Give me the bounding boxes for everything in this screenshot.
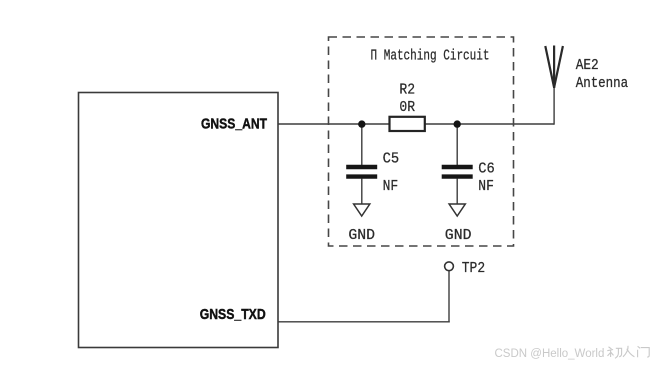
svg-text:R2: R2 (399, 83, 415, 99)
junction node A (358, 120, 365, 127)
wire C6 top lead (456, 124, 458, 165)
capacitor C5 (346, 167, 377, 177)
pin label GNSS_TXD (200, 306, 266, 323)
wire C5 bottom lead (361, 179, 363, 204)
net label GND (C6) (445, 228, 472, 244)
wire TP2 vertical (448, 271, 450, 323)
capacitor C6 (442, 167, 473, 177)
module U1 GNSS module box (79, 93, 279, 348)
label R2 (399, 83, 415, 99)
svg-text:GNSS_ANT: GNSS_ANT (201, 116, 267, 133)
svg-text:C5: C5 (383, 152, 400, 168)
wire GNSS_TXD net (278, 321, 450, 323)
ground (C6) (449, 204, 465, 216)
wire GNSS_ANT net (resistor to antenna corner) (425, 123, 554, 125)
label Pi Matching Circuit (371, 49, 490, 65)
pin label GNSS_ANT (201, 116, 267, 133)
watermark CJK glyphs (607, 346, 649, 359)
value label 0R (399, 100, 415, 116)
junction node B (454, 120, 461, 127)
value label NF (C5) (383, 179, 399, 195)
svg-text:GNSS_TXD: GNSS_TXD (200, 306, 266, 323)
value label NF (C6) (478, 179, 494, 195)
resistor R2 (390, 117, 425, 131)
test point TP2 (445, 262, 454, 271)
svg-text:Antenna: Antenna (576, 76, 629, 92)
ground (C5) (354, 204, 370, 216)
antenna AE2 (545, 46, 563, 89)
svg-text:AE2: AE2 (576, 58, 599, 74)
label Antenna (576, 76, 629, 92)
wire C6 bottom lead (456, 179, 458, 204)
svg-text:GND: GND (445, 228, 472, 244)
label C5 (383, 152, 400, 168)
svg-text:C6: C6 (478, 161, 495, 177)
label C6 (478, 161, 495, 177)
svg-text:NF: NF (478, 179, 494, 195)
matching circuit dashed boundary (329, 37, 514, 246)
svg-text:0R: 0R (399, 100, 415, 116)
watermark CSDN (495, 348, 605, 360)
svg-text:Π Matching Circuit: Π Matching Circuit (371, 49, 490, 65)
svg-text:GND: GND (348, 228, 375, 244)
wire C5 top lead (361, 124, 363, 165)
net label GND (C5) (348, 228, 375, 244)
label TP2 (462, 261, 485, 277)
wire GNSS_ANT net (module to resistor) (278, 123, 390, 125)
svg-text:CSDN @Hello_World: CSDN @Hello_World (495, 348, 605, 360)
svg-text:TP2: TP2 (462, 261, 485, 277)
wire antenna feed vertical (553, 86, 555, 125)
label AE2 (576, 58, 599, 74)
svg-text:NF: NF (383, 179, 399, 195)
